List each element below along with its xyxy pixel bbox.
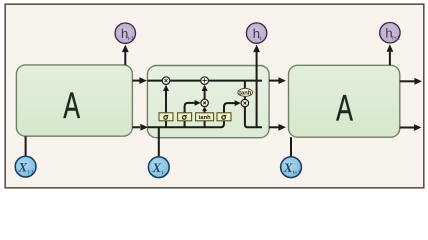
- node h_t: [246, 23, 266, 43]
- gate sigma1 (forget): [159, 113, 173, 121]
- box A left: [16, 65, 132, 136]
- arrowhead hidden line into right box: [278, 124, 286, 131]
- arrowhead sigma4 into mult3: [235, 100, 241, 106]
- wire mult3 down to output hidden line: [245, 107, 262, 128]
- arrowhead cell line into right box: [278, 77, 286, 84]
- pointwise add on cell line: [201, 77, 209, 85]
- svg-text:t-1: t-1: [28, 169, 34, 175]
- arrowhead up to h_t+1: [387, 44, 394, 52]
- pointwise mult1 on cell line: [162, 77, 170, 85]
- node x_t: [148, 157, 169, 178]
- wire x_t input rising to hidden line: [158, 127, 160, 156]
- wire h_t+1 arrow stem: [389, 51, 391, 66]
- wire sigma2 branch: [184, 121, 186, 128]
- arrowhead up to h_t-1: [122, 45, 129, 53]
- wire hidden-state entry into middle box: [132, 126, 140, 128]
- wire right box exits: [400, 80, 415, 82]
- arrowhead right box exit bottom: [414, 124, 422, 131]
- node h_t-1: [115, 23, 135, 43]
- wire sigma4 curve to mult3: [224, 103, 235, 113]
- svg-text:tanh: tanh: [198, 114, 211, 121]
- wire sigma2 curve to mult2: [185, 103, 196, 113]
- arrowhead up to h_t: [253, 45, 260, 53]
- svg-text:t-1: t-1: [128, 36, 134, 42]
- wire sigma1 to mult1: [165, 90, 167, 113]
- wire h_t-1 arrow stem: [124, 51, 126, 65]
- arrowhead right box exit top: [414, 78, 422, 85]
- outer frame: [5, 4, 424, 188]
- wire cell-state line across middle box: [132, 80, 139, 82]
- box A right: [289, 65, 400, 137]
- gate tanh box: [196, 113, 214, 121]
- node h_t+1: [380, 23, 400, 43]
- svg-text:t+1: t+1: [293, 170, 301, 176]
- svg-text:t+1: t+1: [392, 36, 400, 42]
- tanh oval: [238, 88, 253, 96]
- svg-text:X: X: [283, 160, 293, 175]
- svg-text:X: X: [152, 160, 162, 175]
- wire hidden line inside cell curving into sigma4: [147, 121, 224, 127]
- box A middle (LSTM cell): [147, 66, 269, 138]
- gate sigma2 (input): [178, 113, 192, 121]
- svg-text:A: A: [63, 85, 80, 126]
- wire tanh oval to mult3: [244, 96, 246, 99]
- arrowhead tanh-box into mult2: [202, 107, 207, 111]
- wire mult2 to add: [204, 90, 206, 100]
- arrowhead sigma1 into mult1: [163, 85, 169, 91]
- wire h_t riser: [256, 51, 258, 127]
- svg-text:tanh: tanh: [239, 90, 252, 97]
- arrowhead into middle box cell line: [139, 77, 147, 84]
- wire hidden output exit: [269, 126, 279, 128]
- pointwise mult2 (input gate): [201, 99, 208, 106]
- wire x_t+1 input: [290, 137, 292, 156]
- svg-text:A: A: [336, 87, 353, 128]
- svg-text:X: X: [18, 159, 28, 174]
- gate sigma4 (output): [217, 113, 231, 121]
- wire tanh-box to mult2: [204, 110, 206, 113]
- node x_t+1: [281, 157, 302, 178]
- wire sigma1 branch: [165, 121, 167, 128]
- node x_t-1: [15, 156, 36, 177]
- arrowhead into middle box hidden line: [140, 124, 148, 131]
- wire x_t-1 input: [25, 136, 27, 156]
- wire tanh-box branch: [204, 121, 206, 128]
- arrowhead mult2 into add: [202, 85, 208, 91]
- arrowhead sigma2 into mult2: [195, 100, 201, 106]
- wire cell line down to tanh oval: [244, 81, 246, 89]
- pointwise mult3 (output gate): [241, 99, 248, 106]
